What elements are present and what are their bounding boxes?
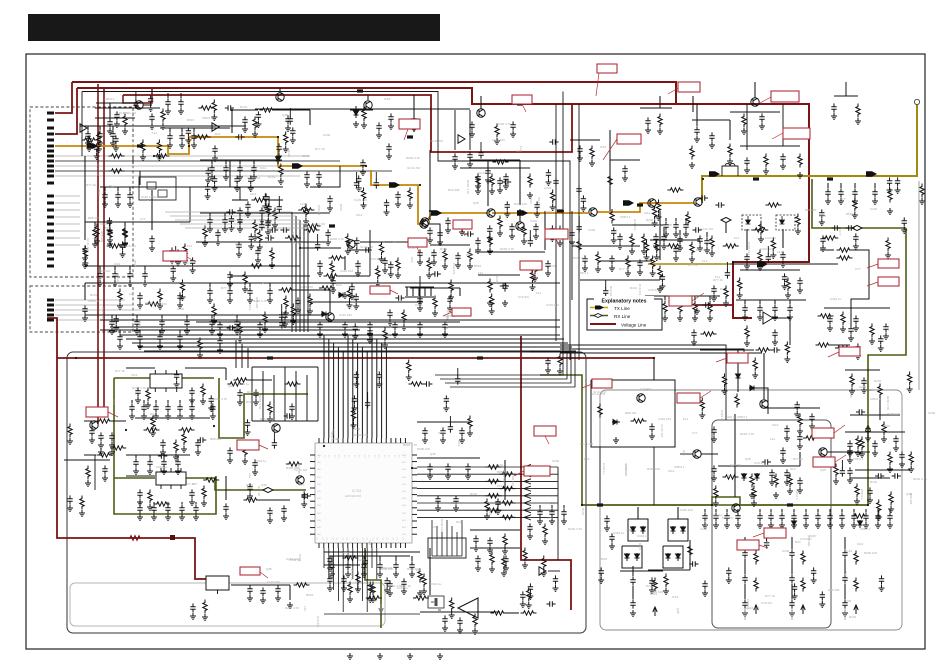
- signal arrow left: [524, 464, 531, 469]
- capacitor C280: [120, 241, 125, 250]
- capacitor C86: [195, 439, 200, 448]
- capacitor C241: [345, 561, 350, 570]
- connector pin: [47, 304, 54, 307]
- inductor: [753, 177, 759, 180]
- resistor R25: [123, 226, 127, 240]
- transistor Q22: [272, 424, 280, 432]
- svg-text:FL1: FL1: [734, 236, 740, 240]
- svg-text:Q45: Q45: [682, 450, 686, 456]
- capacitor C291: [269, 227, 278, 232]
- ground: [159, 328, 165, 334]
- resistor R152: [82, 138, 98, 142]
- capacitor C29: [317, 260, 322, 269]
- svg-text:X2 21.7M: X2 21.7M: [580, 442, 593, 446]
- svg-text:C301 1u: C301 1u: [175, 416, 187, 420]
- diode D3: [338, 293, 346, 298]
- ground: [325, 239, 331, 245]
- CPU pin bottom: [395, 543, 397, 548]
- capacitor C283: [245, 201, 250, 210]
- ground: [177, 343, 183, 349]
- cpu riser: [385, 347, 387, 438]
- ground: [494, 138, 500, 144]
- resistor R183: [550, 190, 554, 204]
- wire: [329, 290, 331, 313]
- voltage line pin stub: [55, 82, 72, 113]
- ground: [727, 158, 733, 164]
- wire: [854, 183, 856, 188]
- ground: [85, 140, 91, 146]
- ground: [744, 263, 750, 269]
- capacitor C365: [726, 567, 731, 576]
- ground: [502, 548, 508, 554]
- bus wrap: [450, 351, 575, 387]
- pin lead: [55, 244, 80, 246]
- voltage line drop B: [103, 88, 105, 412]
- diode D14: [635, 553, 640, 561]
- wire: [229, 283, 231, 287]
- ground: [855, 118, 861, 124]
- resistor R27: [243, 272, 247, 286]
- capacitor C116: [190, 603, 195, 612]
- capacitor C189: [207, 216, 212, 225]
- resistor R44: [642, 234, 646, 248]
- svg-text:C240: C240: [358, 558, 366, 562]
- voltage line loop: [123, 87, 152, 103]
- capacitor C73: [852, 188, 857, 197]
- capacitor C258: [94, 143, 99, 152]
- svg-text:IC12: IC12: [260, 166, 267, 170]
- ground: [689, 162, 695, 168]
- capacitor C9: [149, 113, 154, 122]
- ground: [773, 492, 779, 498]
- wire: [429, 224, 440, 245]
- svg-text:D24: D24: [112, 399, 116, 405]
- node: [299, 247, 301, 249]
- wire: [709, 296, 711, 300]
- wire: [789, 300, 791, 304]
- capacitor C43: [417, 295, 422, 304]
- capacitor C112: [527, 523, 532, 532]
- capacitor C53: [475, 237, 480, 246]
- capacitor C216: [787, 304, 792, 313]
- svg-text:R77 1K: R77 1K: [315, 147, 325, 151]
- capacitor C110: [473, 535, 478, 544]
- wire: [274, 109, 310, 111]
- capacitor C359: [856, 409, 865, 414]
- capacitor C265: [374, 179, 379, 188]
- capacitor C200: [267, 287, 272, 296]
- capacitor C169: [387, 309, 392, 318]
- connector pin: [47, 182, 54, 185]
- svg-text:Voltage Line: Voltage Line: [621, 323, 647, 328]
- resistor R129: [626, 256, 630, 270]
- svg-text:D24: D24: [790, 467, 796, 471]
- svg-text:L21: L21: [516, 149, 521, 153]
- resistor R5: [486, 479, 502, 483]
- svg-text:C88 0.1: C88 0.1: [860, 489, 864, 500]
- wire: [355, 106, 357, 110]
- wire: [679, 296, 681, 300]
- svg-text:R101: R101: [287, 150, 291, 158]
- ground: [259, 217, 265, 223]
- ground: [865, 435, 871, 441]
- svg-text:C240: C240: [530, 219, 538, 223]
- svg-text:R77 1K: R77 1K: [619, 267, 629, 271]
- CPU pin top: [342, 438, 344, 443]
- capacitor C168: [349, 283, 354, 292]
- resistor R105: [854, 551, 858, 565]
- svg-text:Q45: Q45: [745, 457, 751, 461]
- wire: [519, 160, 521, 205]
- ground: [227, 297, 233, 303]
- svg-text:C77: C77: [140, 217, 146, 221]
- ground: [170, 275, 176, 281]
- resistor R23: [109, 169, 125, 173]
- capacitor C81: [189, 387, 194, 396]
- capacitor C137: [815, 512, 820, 521]
- capacitor C144: [742, 549, 747, 558]
- ground: [503, 183, 509, 189]
- capacitor C321: [603, 287, 608, 296]
- capacitor C332: [210, 403, 215, 412]
- resistor R93: [598, 404, 602, 418]
- connector pin: [47, 299, 54, 302]
- resistor R28: [249, 264, 265, 268]
- CPU pin right: [412, 480, 417, 482]
- capacitor C174: [780, 153, 785, 162]
- svg-text:R101: R101: [470, 492, 478, 496]
- CPU pin bottom: [400, 543, 402, 548]
- resistor R76: [179, 428, 195, 432]
- ground: [907, 386, 913, 392]
- resistor R98: [788, 474, 792, 488]
- wire: [167, 400, 169, 403]
- ground: [247, 493, 253, 499]
- ground: [883, 333, 889, 339]
- ground: [888, 506, 894, 512]
- capacitor C354: [892, 473, 901, 478]
- wire: [480, 96, 482, 109]
- svg-text:R515: R515: [846, 212, 854, 216]
- ground: [552, 585, 558, 591]
- ground: [649, 587, 655, 593]
- svg-text:C88 0.1: C88 0.1: [624, 464, 628, 475]
- wire: [126, 475, 155, 477]
- svg-text:R88 220: R88 220: [807, 535, 811, 547]
- ground: [304, 181, 310, 187]
- ground: [677, 315, 683, 321]
- resistor R42: [610, 210, 614, 224]
- wire: [185, 227, 308, 229]
- ground: [820, 245, 826, 251]
- IC CPU main microprocessor: [315, 443, 412, 543]
- wire: [225, 160, 227, 164]
- ground: [501, 570, 507, 576]
- bus wrap: [440, 351, 567, 379]
- capacitor C201: [117, 333, 122, 342]
- node: [75, 357, 77, 359]
- svg-text:C240: C240: [323, 133, 331, 137]
- ground: [852, 212, 858, 218]
- capacitor C128: [702, 512, 707, 521]
- wire: [470, 547, 520, 549]
- capacitor C115: [275, 585, 280, 594]
- capacitor C76: [845, 225, 854, 230]
- wire: [850, 414, 900, 416]
- ground: [329, 275, 335, 281]
- wire: [620, 570, 663, 572]
- resistor R104: [801, 578, 805, 592]
- wire: [87, 126, 89, 130]
- resistor R62: [690, 146, 694, 160]
- ground: [437, 653, 443, 659]
- svg-text:FL1: FL1: [771, 248, 775, 254]
- svg-text:R77 1K: R77 1K: [297, 464, 301, 474]
- ground: [234, 185, 240, 191]
- ground: [699, 412, 705, 418]
- wire: [309, 110, 311, 125]
- resistor R121: [270, 248, 274, 262]
- wire: [99, 126, 101, 130]
- capacitor C212: [683, 221, 688, 230]
- ground: [709, 250, 715, 256]
- ground: [167, 142, 173, 148]
- capacitor C254: [114, 111, 119, 120]
- ground: [92, 241, 98, 247]
- ground: [401, 324, 407, 330]
- wire: [519, 209, 521, 222]
- ground: [847, 450, 853, 456]
- capacitor C126: [630, 576, 635, 585]
- CPU pin left: [310, 527, 315, 529]
- ground: [407, 653, 413, 659]
- wire: [692, 96, 694, 112]
- svg-text:C301 1u: C301 1u: [255, 459, 267, 463]
- wire: [874, 183, 876, 188]
- pin lead: [55, 237, 80, 239]
- wire: [744, 609, 746, 620]
- ground: [713, 522, 719, 528]
- wire: [131, 400, 133, 403]
- RX line main return: [540, 228, 906, 505]
- ground: [384, 587, 390, 593]
- mid bus: [132, 342, 568, 344]
- ground: [251, 174, 257, 180]
- crystal filter dashed XF2: [776, 215, 795, 230]
- svg-text:R77 1K: R77 1K: [221, 286, 231, 290]
- resistor R59: [786, 278, 790, 292]
- capacitor C164: [702, 580, 707, 589]
- svg-text:R204 4.7K: R204 4.7K: [646, 218, 660, 222]
- wire: [457, 368, 459, 376]
- CPU pin bottom: [352, 543, 354, 548]
- ground: [262, 203, 268, 209]
- resistor R136: [490, 174, 494, 188]
- inductor: [637, 203, 643, 206]
- svg-text:C301 1u: C301 1u: [613, 531, 625, 535]
- capacitor C8: [107, 118, 112, 127]
- capacitor C46: [772, 329, 777, 338]
- wire: [529, 230, 531, 238]
- capacitor C179: [167, 132, 172, 141]
- capacitor C176: [609, 255, 614, 264]
- capacitor C369: [820, 591, 825, 600]
- capacitor C320: [611, 227, 616, 236]
- ground: [827, 325, 833, 331]
- wire: [112, 126, 114, 130]
- capacitor C231: [161, 458, 166, 467]
- IC ceramic filter FL30: [150, 370, 182, 392]
- capacitor C324: [725, 269, 730, 278]
- resistor R125: [498, 216, 502, 230]
- CPU pin top: [323, 438, 325, 443]
- capacitor C315: [487, 225, 492, 234]
- capacitor C229: [133, 458, 138, 467]
- signal arrow left: [524, 486, 531, 491]
- capacitor C299: [330, 277, 335, 286]
- ground: [549, 518, 555, 524]
- ground: [401, 588, 407, 594]
- resistor R61: [724, 286, 728, 300]
- svg-text:R19 33K: R19 33K: [448, 188, 460, 192]
- capacitor C154: [784, 469, 789, 478]
- ground: [137, 302, 143, 308]
- wire: [100, 329, 320, 331]
- ground: [448, 294, 454, 300]
- ground: [352, 333, 358, 339]
- capacitor C2: [576, 185, 581, 194]
- ground: [742, 610, 748, 616]
- capacitor C149: [789, 599, 794, 608]
- resistor R206: [468, 416, 472, 430]
- capacitor C232: [175, 458, 180, 467]
- ground: [255, 257, 261, 263]
- wire: [539, 505, 541, 508]
- pin lead: [55, 195, 80, 197]
- wire: [766, 532, 768, 540]
- title bar: [28, 14, 440, 41]
- wire: [645, 295, 720, 297]
- wire: [659, 96, 661, 108]
- resistor R237: [523, 548, 527, 562]
- ground: [787, 488, 793, 494]
- node: [411, 467, 413, 469]
- CPU pin top: [400, 438, 402, 443]
- pin lead bus: [55, 160, 340, 162]
- ground: [707, 315, 713, 321]
- svg-text:FL1: FL1: [109, 184, 115, 188]
- svg-text:C115 103: C115 103: [267, 580, 280, 584]
- node: [365, 165, 367, 167]
- capacitor C370: [689, 561, 698, 566]
- wire: [225, 368, 227, 380]
- opamp out: [772, 318, 790, 345]
- resistor R8: [500, 501, 516, 505]
- cpu riser: [347, 335, 349, 438]
- svg-text:R101: R101: [90, 293, 98, 297]
- wire: [706, 232, 708, 237]
- capacitor C30: [355, 260, 360, 269]
- svg-text:R515: R515: [133, 260, 137, 268]
- ground: [797, 428, 803, 434]
- capacitor C188: [127, 191, 132, 200]
- cpu riser: [323, 335, 325, 438]
- svg-text:C19 47p: C19 47p: [518, 295, 530, 299]
- resistor R180: [291, 304, 295, 318]
- capacitor C185: [251, 164, 256, 173]
- ground: [895, 187, 901, 193]
- ground: [527, 192, 533, 198]
- svg-text:X2 21.7M: X2 21.7M: [100, 169, 113, 173]
- cpu bottom drop: [357, 548, 359, 590]
- svg-text:R515: R515: [339, 204, 343, 212]
- capacitor C129: [713, 512, 718, 521]
- resistor R30: [304, 228, 320, 232]
- wire: [186, 315, 188, 318]
- ground: [178, 108, 184, 114]
- ground: [248, 243, 254, 249]
- resistor R233: [853, 198, 857, 212]
- wire: [236, 315, 238, 318]
- capacitor C79: [848, 325, 853, 334]
- ground: [388, 123, 394, 129]
- ground: [234, 328, 240, 334]
- ground: [759, 123, 765, 129]
- capacitor C352: [771, 347, 780, 352]
- op-amp U1: [458, 135, 465, 143]
- wire: [696, 104, 698, 126]
- ground: [899, 461, 905, 467]
- node: [323, 445, 325, 447]
- svg-text:C115 103: C115 103: [101, 307, 105, 320]
- wire: [303, 224, 305, 332]
- resistor R234: [502, 556, 506, 570]
- wire: [281, 312, 283, 320]
- wire: [379, 556, 381, 561]
- capacitor C6: [165, 98, 170, 107]
- ground: [472, 628, 478, 634]
- ground: [184, 328, 190, 334]
- capacitor C357: [875, 473, 884, 478]
- svg-text:C77: C77: [299, 483, 305, 487]
- cpu data bus: [417, 466, 558, 468]
- ground: [106, 227, 112, 233]
- ground: [150, 430, 156, 436]
- wire: [143, 400, 145, 403]
- svg-text:C240: C240: [138, 321, 142, 329]
- ground: [212, 185, 218, 191]
- resistor R16: [495, 124, 499, 138]
- capacitor C120: [711, 426, 716, 435]
- capacitor C240: [329, 561, 334, 570]
- resistor R20: [273, 208, 277, 222]
- resistor R204: [203, 478, 219, 482]
- resistor R45: [686, 212, 690, 226]
- ground: [82, 255, 88, 261]
- capacitor C326: [782, 273, 787, 282]
- capacitor C372: [902, 217, 907, 226]
- svg-text:C240: C240: [355, 580, 363, 584]
- ground: [692, 315, 698, 321]
- antenna connector: [914, 99, 919, 104]
- capacitor C348: [352, 395, 357, 404]
- resistor R147: [68, 424, 72, 438]
- capacitor C392: [282, 311, 287, 320]
- resistor R78: [243, 444, 247, 458]
- wire: [117, 187, 119, 191]
- wire: [740, 145, 800, 147]
- wire: [889, 509, 891, 512]
